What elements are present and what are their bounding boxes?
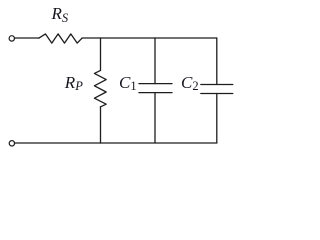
- svg-text:RS: RS: [51, 4, 69, 25]
- wire: top-right corner down to C2: [216, 38, 218, 85]
- terminal: bottom-left input: [9, 141, 14, 146]
- wire: top-left terminal to R_S: [14, 37, 38, 39]
- wire: R_S to node A: [82, 37, 101, 39]
- capacitor C2: [201, 85, 233, 94]
- wire: C1 to bottom rail: [154, 93, 156, 143]
- wire: top rail down to C1: [154, 38, 156, 84]
- resistor R_P: [94, 70, 106, 106]
- wire: C1 branch to top-right corner: [155, 37, 217, 39]
- wire: node A to C1 branch: [101, 37, 156, 39]
- wire: bottom rail: [14, 142, 216, 144]
- svg-text:C1: C1: [119, 73, 137, 93]
- terminal: top-left input: [9, 36, 14, 41]
- wire: node A down to R_P: [100, 38, 102, 70]
- svg-text:RP: RP: [64, 73, 83, 93]
- wire: C2 to bottom-right corner: [216, 94, 218, 144]
- capacitor C1: [139, 84, 172, 93]
- resistor R_S: [39, 34, 82, 43]
- svg-text:C2: C2: [181, 73, 199, 93]
- wire: R_P to bottom rail: [100, 107, 102, 143]
